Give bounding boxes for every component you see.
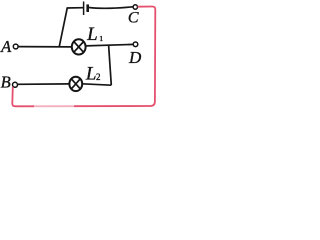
svg-text:1: 1 xyxy=(99,34,103,43)
svg-text:L: L xyxy=(86,24,98,45)
red jumper wire node B to node C xyxy=(12,6,155,106)
wire battery to node C xyxy=(89,7,133,9)
wire battery branch vertical xyxy=(59,8,67,46)
wire node A to lamp L1 xyxy=(18,46,72,48)
svg-text:B: B xyxy=(1,73,11,92)
svg-text:2: 2 xyxy=(96,72,101,82)
wire top left to battery xyxy=(67,7,84,9)
wire junction vertical L2 branch xyxy=(109,45,112,85)
node B terminal xyxy=(13,82,18,87)
svg-text:L: L xyxy=(85,64,97,85)
battery cell long plate xyxy=(83,2,85,16)
battery cell short thick plate xyxy=(86,4,89,12)
wire lamp L2 to junction xyxy=(82,84,111,85)
lamp L1 xyxy=(72,39,86,54)
red jumper wire faded middle section xyxy=(34,105,74,108)
svg-text:A: A xyxy=(0,37,12,56)
node C terminal xyxy=(133,5,137,9)
lamp L2 xyxy=(69,77,82,91)
node D terminal xyxy=(133,42,138,47)
svg-text:C: C xyxy=(128,10,139,27)
node A terminal xyxy=(13,44,18,49)
svg-text:D: D xyxy=(128,48,142,67)
wire node B to lamp L2 xyxy=(18,83,70,85)
wire lamp L1 to node D xyxy=(86,44,133,46)
